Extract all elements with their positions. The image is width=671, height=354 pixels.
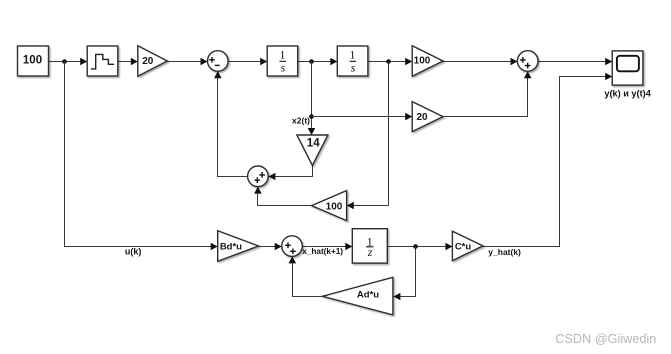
wire sum2 to sum1 bottom feedback <box>214 71 248 176</box>
svg-text:y(k) и y(t)4: y(k) и y(t)4 <box>604 89 651 99</box>
wire x2 branch to gain 20 lower <box>312 113 413 121</box>
integrator2 1/s <box>337 46 368 76</box>
wire Ad*u to sum4 bottom <box>289 256 323 296</box>
wire gain 100 to sum3 <box>443 58 518 66</box>
svg-text:x_hat(k+1): x_hat(k+1) <box>302 247 343 256</box>
label u(k) <box>125 247 141 257</box>
gain Ad*u left-pointing <box>323 277 393 315</box>
wire C*u up to scope input2 <box>483 73 612 247</box>
scope block <box>612 51 643 85</box>
wire gain 100 left-pointing to sum2 bottom <box>254 187 312 206</box>
svg-text:s: s <box>351 60 356 74</box>
unit delay 1/z <box>352 229 387 263</box>
gain 20 lower right <box>412 102 443 132</box>
label x2(t) <box>292 115 310 125</box>
svg-text:CSDN @Giiwedin: CSDN @Giiwedin <box>555 332 656 346</box>
svg-text:z: z <box>367 245 373 259</box>
signal generator block <box>87 46 118 76</box>
sum1 (+ -) <box>208 51 229 72</box>
svg-text:y_hat(k): y_hat(k) <box>488 247 521 257</box>
svg-text:100: 100 <box>414 56 431 67</box>
wire gain 14 to sum2 right <box>268 166 312 181</box>
label y_hat(k) <box>488 247 521 257</box>
svg-text:Ad*u: Ad*u <box>357 290 379 301</box>
watermark <box>555 332 656 346</box>
svg-text:1: 1 <box>279 47 285 61</box>
node branch after unit delay <box>413 244 418 249</box>
svg-text:1: 1 <box>350 47 356 61</box>
svg-text:100: 100 <box>326 201 343 212</box>
wire gain 20 lower to sum3 bottom <box>443 71 532 116</box>
wire sum4 to unit delay <box>302 243 352 251</box>
wire x2 branch down to gain 14 <box>308 62 316 136</box>
wire constant to signal generator <box>49 58 88 66</box>
wire sum1 to integrator1 <box>228 58 267 66</box>
node branch after integrator1 <box>309 59 314 64</box>
svg-text:20: 20 <box>142 56 154 67</box>
svg-text:14: 14 <box>307 138 320 150</box>
svg-text:u(k): u(k) <box>125 247 141 257</box>
svg-text:s: s <box>281 60 286 74</box>
node x2(t) branch <box>309 114 314 119</box>
svg-text:x2(t): x2(t) <box>292 115 310 125</box>
gain 20 upper <box>138 46 168 76</box>
gain 14 down-pointing <box>297 135 328 166</box>
svg-text:Bd*u: Bd*u <box>220 241 242 252</box>
node branch after integrator2 <box>386 59 391 64</box>
wire gain 20 to sum1 <box>167 58 207 66</box>
label x_hat(k+1) <box>302 247 343 256</box>
gain Bd*u <box>218 231 259 262</box>
sum3 (+ +) <box>517 51 538 72</box>
wire sum3 to scope input1 <box>538 58 612 66</box>
wire Bd*u to sum4 <box>259 243 282 251</box>
svg-text:C*u: C*u <box>455 242 472 253</box>
wire integrator2 to gain 100 <box>368 58 412 66</box>
sum4 (+ +) <box>282 236 303 257</box>
wire unit delay to C*u <box>387 243 452 251</box>
wire u(k) branch down to Bd*u gain <box>65 62 218 251</box>
constant block 100 <box>18 46 49 76</box>
gain 100 left-pointing <box>312 191 347 221</box>
gain C*u <box>452 231 483 260</box>
wire integrator1 to integrator2 <box>298 58 338 66</box>
wire branch down to Ad*u <box>393 247 415 301</box>
wire signal generator to gain 20 <box>118 58 138 66</box>
sum2 (+ +) <box>248 166 269 187</box>
svg-text:20: 20 <box>416 112 428 123</box>
wire branch down to gain 100 left-pointing <box>347 62 389 210</box>
label y(k) and y(t)4 <box>604 89 651 99</box>
integrator1 1/s <box>267 46 298 76</box>
node branch after constant <box>62 59 67 64</box>
gain 100 upper right <box>412 46 443 76</box>
svg-text:100: 100 <box>23 54 42 66</box>
